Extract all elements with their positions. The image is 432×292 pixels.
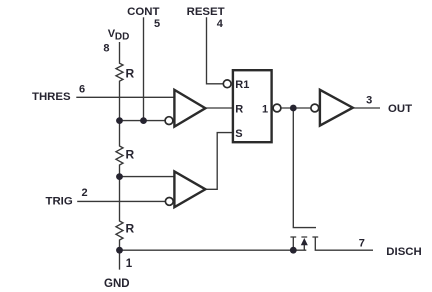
svg-text:GND: GND: [104, 278, 130, 290]
svg-text:8: 8: [103, 43, 109, 55]
svg-text:5: 5: [154, 18, 160, 30]
svg-text:1: 1: [262, 104, 268, 116]
svg-text:R: R: [126, 67, 135, 81]
svg-text:CONT: CONT: [127, 6, 159, 18]
svg-text:4: 4: [217, 18, 224, 30]
svg-text:OUT: OUT: [388, 103, 412, 115]
svg-text:R: R: [126, 148, 135, 162]
svg-text:7: 7: [359, 238, 365, 250]
svg-text:R: R: [235, 104, 243, 116]
svg-text:S: S: [235, 128, 242, 140]
svg-text:3: 3: [366, 95, 372, 107]
svg-text:DD: DD: [115, 31, 129, 42]
svg-text:RESET: RESET: [187, 6, 225, 18]
svg-text:6: 6: [79, 84, 85, 96]
svg-text:2: 2: [82, 187, 88, 199]
svg-text:THRES: THRES: [32, 91, 71, 103]
svg-text:1: 1: [126, 258, 133, 270]
svg-text:TRIG: TRIG: [46, 195, 73, 207]
svg-text:R1: R1: [235, 79, 249, 91]
svg-text:DISCH: DISCH: [386, 246, 421, 258]
svg-text:R: R: [126, 221, 135, 235]
